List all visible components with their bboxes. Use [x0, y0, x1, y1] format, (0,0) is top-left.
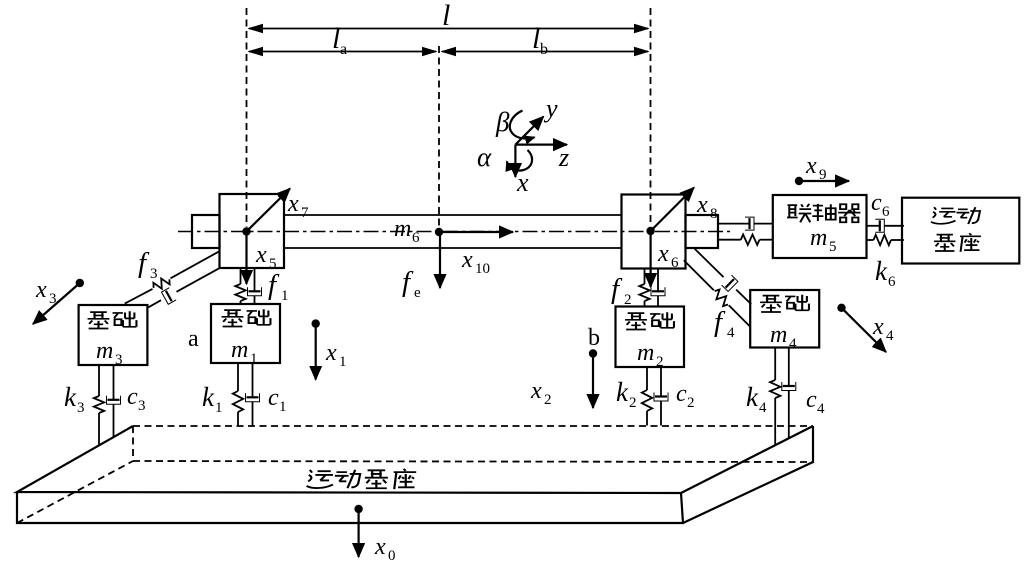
damper c4 — [782, 348, 825, 439]
slab hidden left vertical edge (dashed) — [132, 426, 134, 461]
mass m4 box — [750, 290, 819, 352]
svg-text:2: 2 — [656, 354, 664, 370]
rotation arc beta — [495, 107, 535, 139]
force fe arrow — [402, 232, 440, 301]
screw shaft bottom line — [284, 247, 622, 249]
slab hidden bottom back edge (dashed) — [133, 461, 813, 462]
svg-text:l: l — [442, 0, 450, 32]
dimension line lb — [442, 22, 648, 58]
svg-text:1: 1 — [215, 400, 223, 416]
svg-text:c: c — [871, 190, 882, 216]
coordinate axis x — [515, 145, 529, 197]
svg-text:2: 2 — [629, 395, 637, 411]
svg-text:3: 3 — [138, 398, 146, 414]
arrow x10 — [439, 232, 513, 277]
arrow x6 — [651, 231, 679, 287]
svg-text:2: 2 — [544, 392, 552, 408]
svg-text:c: c — [127, 384, 138, 410]
node right bearing — [646, 227, 654, 235]
right shaft stub — [686, 215, 719, 248]
rotation arc alpha — [477, 142, 532, 172]
spring link shaft-to-coupling — [718, 235, 773, 245]
mass m3 box — [79, 305, 148, 368]
svg-text:f: f — [268, 269, 280, 301]
arrow x0 — [354, 505, 395, 561]
svg-text:b: b — [588, 325, 600, 351]
svg-text:k: k — [616, 377, 629, 407]
svg-text:k: k — [64, 382, 77, 412]
spring-damper f2 — [611, 269, 665, 309]
svg-text:6: 6 — [412, 230, 420, 246]
damper c6 — [867, 190, 904, 232]
svg-text:2: 2 — [687, 395, 695, 411]
svg-text:1: 1 — [250, 351, 258, 367]
slab right face — [683, 426, 813, 523]
left shaft stub — [192, 215, 220, 248]
node screw centre — [435, 228, 443, 236]
spring k3 — [64, 365, 104, 446]
svg-text:x: x — [287, 191, 299, 217]
svg-text:x: x — [530, 378, 542, 404]
spring-damper f1 — [235, 268, 288, 304]
svg-text:x: x — [374, 534, 386, 560]
coupling m5 box — [773, 195, 867, 258]
svg-text:c: c — [268, 385, 279, 411]
svg-text:6: 6 — [882, 204, 890, 220]
svg-text:4: 4 — [817, 401, 825, 417]
svg-text:f: f — [402, 266, 414, 298]
slab top face solid edges — [17, 426, 813, 493]
svg-text:x: x — [696, 192, 708, 218]
arrow x9 — [795, 153, 849, 185]
svg-text:x: x — [516, 168, 529, 197]
label m6 — [394, 216, 420, 246]
svg-text:k: k — [746, 382, 759, 412]
svg-text:4: 4 — [886, 328, 894, 344]
svg-text:x: x — [461, 247, 473, 273]
arrow x7 — [247, 189, 310, 232]
arrow x4 — [837, 304, 894, 352]
svg-text:f: f — [714, 306, 726, 338]
svg-text:m: m — [810, 225, 827, 251]
label b — [588, 325, 600, 351]
arrow x8 — [651, 188, 718, 232]
damper c1 — [246, 363, 287, 426]
label a — [188, 326, 199, 352]
extension line right (dashed) — [650, 8, 652, 226]
node left bearing — [242, 227, 250, 235]
svg-text:x: x — [657, 241, 669, 267]
svg-text:6: 6 — [671, 255, 679, 271]
spring k4 — [746, 348, 780, 446]
svg-text:3: 3 — [49, 291, 57, 307]
svg-text:k: k — [875, 256, 888, 286]
mass m1 box — [211, 304, 280, 367]
extension line centre (dashed) — [438, 46, 440, 228]
svg-text:7: 7 — [301, 205, 309, 221]
coordinate axis z — [515, 143, 569, 172]
svg-text:a: a — [188, 326, 199, 352]
svg-text:m: m — [770, 322, 787, 348]
arrow x3 — [33, 277, 84, 324]
svg-text:4: 4 — [759, 400, 767, 416]
svg-text:x: x — [255, 242, 267, 268]
svg-text:4: 4 — [727, 325, 735, 341]
svg-text:m: m — [637, 340, 654, 366]
screw shaft top line — [284, 214, 622, 216]
left bearing block — [220, 194, 285, 268]
svg-text:c: c — [806, 387, 817, 413]
svg-text:f: f — [138, 247, 150, 279]
svg-text:10: 10 — [475, 261, 490, 277]
svg-text:z: z — [558, 143, 569, 172]
slab label motor base — [307, 469, 417, 489]
spring k6 — [867, 235, 904, 290]
svg-text:m: m — [231, 337, 248, 363]
svg-text:1: 1 — [339, 354, 347, 370]
damper c2 — [654, 367, 695, 426]
svg-text:x: x — [805, 153, 817, 179]
slab front face — [17, 492, 683, 523]
spring-damper f3 — [125, 247, 221, 307]
motor base box — [902, 198, 1019, 264]
damper c3 — [107, 365, 146, 438]
dimension line la — [249, 22, 436, 58]
spring k2 — [616, 367, 652, 426]
arrow x5 — [247, 232, 277, 285]
svg-text:5: 5 — [829, 239, 837, 255]
shaft centreline (dash-dot) — [178, 231, 730, 233]
svg-text:f: f — [611, 273, 623, 305]
arrow x1 — [312, 319, 347, 379]
svg-text:1: 1 — [279, 399, 287, 415]
mass m2 box — [616, 307, 685, 371]
spring k1 — [202, 363, 243, 426]
svg-text:3: 3 — [150, 266, 158, 282]
svg-text:k: k — [202, 382, 215, 412]
coordinate axis y — [515, 94, 558, 145]
damper link shaft-to-coupling — [718, 217, 773, 230]
svg-text:x: x — [325, 340, 337, 366]
svg-text:y: y — [543, 94, 558, 123]
svg-text:α: α — [477, 142, 492, 172]
arrow x2 — [530, 349, 597, 408]
svg-text:c: c — [676, 381, 687, 407]
svg-text:a: a — [340, 41, 347, 58]
svg-text:β: β — [495, 107, 510, 137]
dimension line l — [249, 0, 648, 32]
svg-text:1: 1 — [281, 288, 289, 304]
svg-text:b: b — [540, 41, 548, 58]
svg-text:3: 3 — [115, 352, 123, 368]
svg-text:3: 3 — [77, 400, 85, 416]
right bearing block — [622, 195, 686, 269]
slab hidden bottom left edge (dashed) — [17, 461, 133, 523]
slab hidden back edge (dashed) — [133, 425, 813, 427]
svg-text:0: 0 — [388, 548, 396, 561]
svg-text:e: e — [414, 285, 421, 301]
svg-text:m: m — [96, 338, 113, 364]
extension line left (dashed) — [246, 8, 248, 227]
svg-text:x: x — [35, 277, 47, 303]
svg-text:6: 6 — [888, 274, 896, 290]
spring-damper f4 — [684, 249, 751, 341]
svg-text:8: 8 — [710, 206, 718, 222]
svg-text:x: x — [872, 314, 884, 340]
svg-text:4: 4 — [789, 336, 797, 352]
svg-text:9: 9 — [819, 167, 827, 183]
svg-text:m: m — [394, 216, 411, 242]
